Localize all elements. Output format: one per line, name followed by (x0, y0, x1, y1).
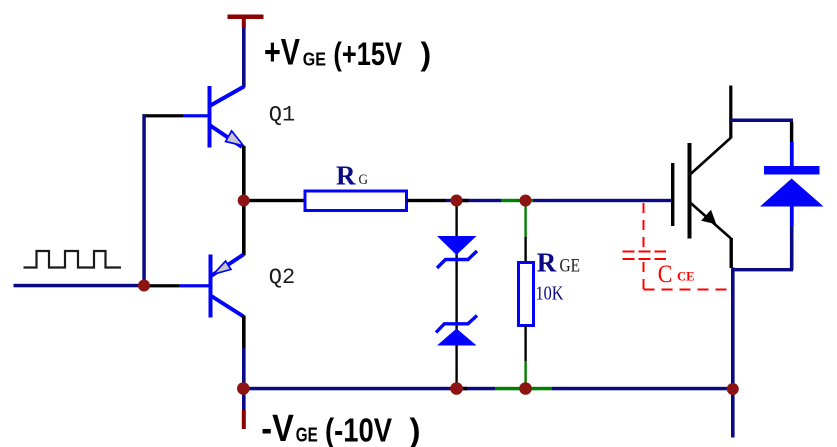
svg-text:Q1: Q1 (269, 102, 295, 127)
svg-text:-V: -V (261, 408, 294, 447)
svg-text:): ) (421, 36, 432, 72)
svg-text:G: G (359, 172, 369, 188)
svg-text:Q2: Q2 (269, 265, 295, 290)
svg-text:GE: GE (303, 49, 326, 69)
svg-text:(-10V: (-10V (325, 412, 392, 447)
svg-text:GE: GE (296, 424, 318, 447)
svg-text:R: R (336, 161, 356, 191)
svg-text:R: R (537, 247, 557, 277)
svg-text:(+15V: (+15V (333, 36, 402, 72)
svg-text:GE: GE (560, 255, 581, 276)
svg-text:C: C (658, 261, 673, 288)
svg-text:+V: +V (264, 31, 300, 72)
svg-text:10K: 10K (536, 283, 564, 305)
svg-text:CE: CE (677, 270, 695, 284)
svg-text:): ) (410, 412, 421, 447)
